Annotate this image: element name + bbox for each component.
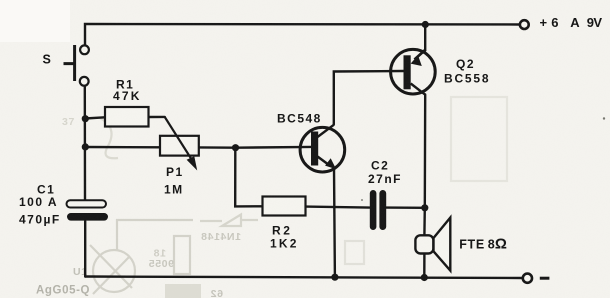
transistor Q2 BC558 bbox=[391, 49, 436, 94]
wire R1 left bbox=[85, 117, 105, 118]
P1 wiper diagonal bbox=[165, 117, 192, 160]
ghost wire vertical left bbox=[116, 219, 193, 250]
capacitor C2 plate left bbox=[370, 190, 377, 230]
speck bbox=[603, 117, 605, 119]
node dot base net bbox=[232, 144, 239, 151]
node dot R1 tap bbox=[82, 115, 89, 122]
capacitor C1 plate top bbox=[67, 200, 107, 207]
ghost blob bottom bbox=[165, 284, 201, 298]
wire switch to lower net bbox=[84, 86, 87, 201]
switch S bottom contact bbox=[80, 77, 89, 86]
node dot C2 collector bbox=[421, 204, 428, 211]
potentiometer P1 bbox=[160, 136, 199, 156]
node dot emitter ground bbox=[331, 274, 338, 281]
wire top rail bbox=[85, 24, 520, 45]
ghost diagonal bbox=[90, 245, 132, 294]
wire Q2 emitter up bbox=[424, 25, 426, 51]
terminal +V bbox=[520, 20, 529, 29]
resistor R1 bbox=[105, 107, 149, 127]
minus dash bbox=[540, 277, 550, 280]
node dot top rail bbox=[422, 21, 429, 28]
speaker FTE bbox=[415, 218, 450, 271]
transistor BC548 bbox=[300, 125, 345, 172]
P1 wiper arrowhead bbox=[187, 156, 198, 170]
terminal minus bbox=[523, 274, 532, 283]
wire R2 to C2 bbox=[306, 207, 370, 208]
wire C2 right to collector node bbox=[386, 206, 425, 209]
wire P1 right bbox=[199, 146, 236, 149]
speck bbox=[361, 199, 363, 201]
white corner patch bbox=[0, 0, 70, 42]
wire Q2 collector down bbox=[423, 95, 426, 236]
node dot speaker ground bbox=[421, 274, 428, 281]
switch S top contact bbox=[80, 45, 89, 54]
wire BC548 emitter down bbox=[333, 168, 336, 277]
ghost transistor circle bbox=[93, 250, 135, 292]
switch S actuator bbox=[64, 45, 75, 81]
wire speaker to bottom rail bbox=[423, 254, 426, 278]
wire below C1 to bottom rail bbox=[84, 221, 86, 277]
capacitor C2 plate right bbox=[379, 190, 386, 230]
wire node down to R2 bbox=[235, 148, 262, 207]
ghost diode bbox=[200, 215, 258, 227]
ghost squiggle near P1 bbox=[100, 118, 118, 158]
wire P1 left bbox=[85, 146, 160, 149]
wire bottom rail bbox=[85, 277, 523, 279]
node dot P1 tap bbox=[82, 143, 89, 150]
ghost box right bbox=[345, 241, 364, 264]
ghost resistor tall bbox=[174, 236, 190, 274]
capacitor C1 plate bottom bbox=[67, 213, 108, 221]
wire R1 right bbox=[149, 116, 165, 118]
wire BC548 collector up and to Q2 base bbox=[334, 71, 404, 125]
resistor R2 bbox=[263, 197, 306, 216]
paper noise overlay bbox=[0, 0, 1, 1]
ghost big rect bbox=[451, 97, 507, 181]
wire base BC548 bbox=[236, 146, 312, 149]
